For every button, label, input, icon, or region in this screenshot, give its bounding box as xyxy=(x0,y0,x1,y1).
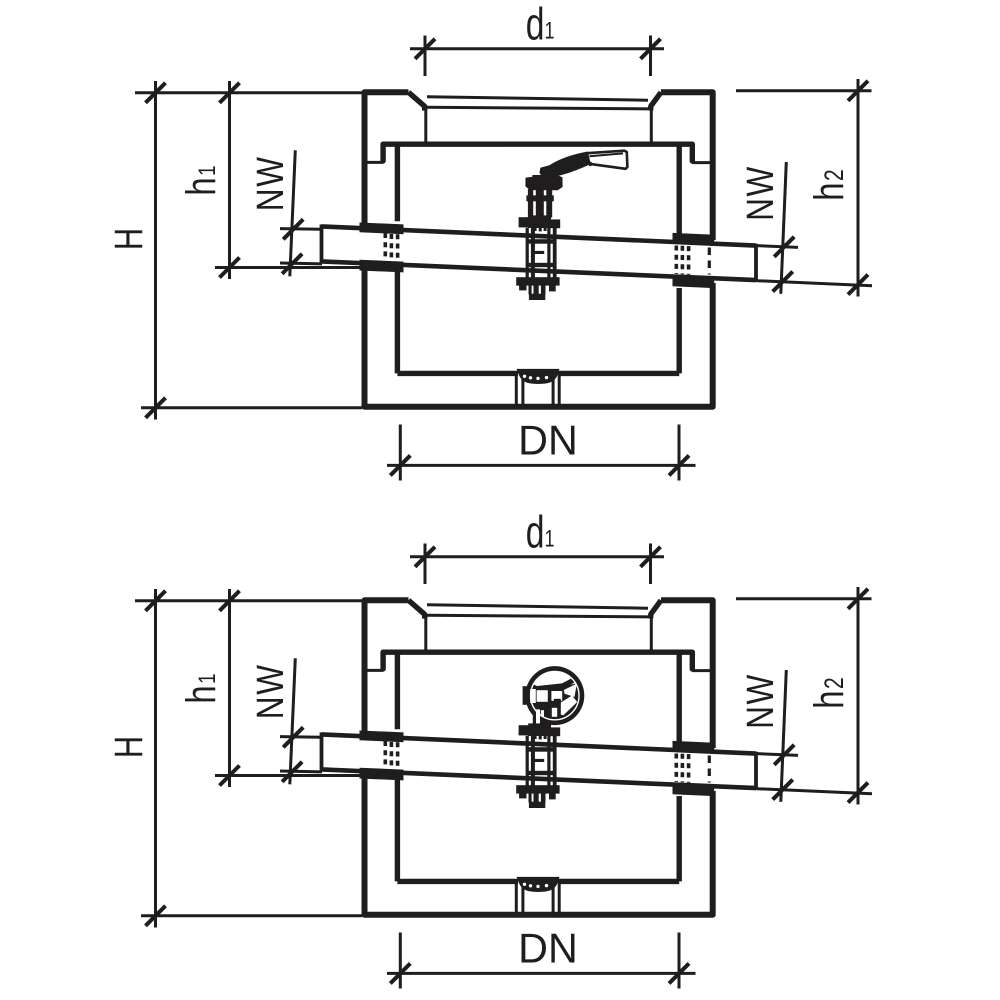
H bottom extension line 2 xyxy=(141,914,362,917)
valve 1 upper flange xyxy=(528,215,551,228)
pipe 2 left seal dashes xyxy=(383,741,387,768)
valve 1 lower stem xyxy=(529,285,532,294)
DN right tick 1 xyxy=(669,455,689,475)
d1 right tick 1 xyxy=(641,39,661,59)
h1 bottom extension line 1 xyxy=(215,266,361,269)
pipe 2 outer-wall dashed joint xyxy=(708,756,711,783)
h1 bottom tick 1 xyxy=(220,258,240,278)
pipe 1 right wall seal bottom bar xyxy=(673,275,715,288)
dimension h2 line 1 xyxy=(857,79,860,297)
d1 left tick 1 xyxy=(415,39,435,59)
dimension NW-left line 2 xyxy=(290,658,296,784)
chamber 1 cover seat xyxy=(426,107,650,109)
pipe 2 left wall seal top bar xyxy=(360,731,404,743)
pipe 1 left seal dashes xyxy=(383,233,387,260)
chamber 2 neck right wall xyxy=(650,617,653,653)
chamber 2 cover seat xyxy=(426,615,650,617)
NW-right top tick 2 xyxy=(774,745,794,765)
dimension NW-left line 1 xyxy=(290,150,296,276)
pipe 1 outer-wall dashed joint xyxy=(708,248,711,275)
dimension h1 line 2 xyxy=(228,589,231,787)
valve 2 handwheel top opening xyxy=(533,671,575,686)
chamber 1 outer wall outline xyxy=(365,92,409,228)
valve 2 stem xyxy=(533,704,548,726)
pipe 2 top edge xyxy=(322,734,757,753)
NW-right top extension line 1 xyxy=(757,246,798,248)
chamber 2 inner ceiling xyxy=(383,650,691,655)
NW-right top tick 1 xyxy=(774,237,794,257)
h2 bottom tick 1 xyxy=(848,275,868,295)
valve 2 body rungs xyxy=(528,747,557,752)
chamber 2 left rebate xyxy=(380,652,385,669)
chamber 1 neck right wall xyxy=(650,109,653,145)
pipe 1 right seal dashes xyxy=(674,246,678,275)
valve 2 right bolt columns xyxy=(547,736,550,789)
dimension h1 line 1 xyxy=(228,81,231,279)
NW-left extension lines 1 xyxy=(280,229,322,264)
chamber 2 cover plate top xyxy=(427,605,648,608)
h1 bottom extension line 2 xyxy=(215,774,361,777)
pipe 2 right end xyxy=(754,752,758,790)
dimension NW-right line 1 xyxy=(781,162,787,294)
pipe 2 left end xyxy=(320,733,324,772)
NW-left top tick 1 xyxy=(283,219,303,239)
pipe 2 right wall seal bottom bar xyxy=(673,783,715,796)
H top tick 1 xyxy=(146,83,166,103)
dimension DN line 1 xyxy=(387,464,696,467)
chamber 2 drain sump dish xyxy=(517,877,560,892)
H bottom tick 1 xyxy=(146,398,166,418)
valve 2 handwheel highlight ring xyxy=(531,671,579,719)
dimension H line 1 xyxy=(154,81,157,420)
NW-right bottom tick 2 xyxy=(773,780,793,800)
pipe 2 right wall seal top bar xyxy=(673,741,715,754)
pipe 1 right end xyxy=(754,244,758,282)
pipe 1 right wall seal top bar xyxy=(673,233,715,246)
valve 1 lever grip xyxy=(587,151,627,169)
dimension H line 2 xyxy=(154,589,157,928)
h2 top tick 1 xyxy=(848,81,868,101)
NW-left extension lines 2 xyxy=(280,737,322,772)
pipe bottom extension line right 2 xyxy=(757,789,872,794)
pipe 2 bottom edge xyxy=(322,769,757,788)
valve 1 left bolt columns xyxy=(526,228,529,281)
dimension h2 line 2 xyxy=(857,587,860,805)
pipe 1 bottom edge xyxy=(322,261,757,280)
h1 top tick 2 xyxy=(220,591,240,611)
svg-text:NW: NW xyxy=(249,663,291,719)
chamber 1 drain sump dish xyxy=(517,369,560,384)
valve 2 lower flange xyxy=(516,785,559,793)
NW-right bottom tick 1 xyxy=(773,272,793,292)
valve 2 handwheel hub slots xyxy=(530,689,536,703)
chamber 2 floor xyxy=(397,879,679,884)
dimension d1 line 2 xyxy=(410,555,664,558)
DN extension lines 1 xyxy=(400,425,679,481)
d1 left tick 2 xyxy=(415,547,435,567)
pipe bottom extension line right 1 xyxy=(757,281,872,286)
chamber 2 inner right wall xyxy=(677,652,682,881)
DN left tick 1 xyxy=(390,455,410,475)
valve 2 handwheel bottom gap xyxy=(552,708,557,717)
H bottom tick 2 xyxy=(146,906,166,926)
chamber 1 inner right wall xyxy=(677,144,682,373)
DN right tick 2 xyxy=(669,963,689,983)
chamber 1 rim left chamfer xyxy=(409,92,425,110)
svg-text:H: H xyxy=(106,736,151,758)
dimension DN line 2 xyxy=(387,972,696,975)
d1 right tick 2 xyxy=(641,547,661,567)
pipe 1 left wall seal top bar xyxy=(360,223,404,235)
h2 bottom tick 2 xyxy=(848,783,868,803)
DN left tick 2 xyxy=(390,963,410,983)
valve 2 left bolt columns xyxy=(526,736,529,789)
h2 top extension line 2 xyxy=(736,597,872,600)
valve 1 lower flange xyxy=(516,277,559,285)
svg-text:DN: DN xyxy=(518,926,578,972)
chamber 2 rim right chamfer xyxy=(651,600,661,618)
svg-text:H: H xyxy=(106,228,151,250)
chamber 1 neck left wall xyxy=(424,109,427,145)
pipe 1 left wall seal bottom bar xyxy=(360,260,404,273)
chamber 1 left rebate xyxy=(380,144,385,161)
valve 2 upper flange xyxy=(528,723,551,736)
valve 1 foot xyxy=(529,294,545,300)
valve 2 handwheel right spoke gap xyxy=(564,684,577,697)
chamber 2 inner left wall xyxy=(395,652,400,881)
h1 top tick 1 xyxy=(220,83,240,103)
chamber 1 floor xyxy=(397,371,679,376)
h2 top tick 2 xyxy=(848,589,868,609)
valve 2 handwheel hub top band xyxy=(538,676,578,690)
pipe 1 left end xyxy=(320,225,324,264)
valve 1 lever arm xyxy=(540,152,590,177)
d1 extension lines 1 xyxy=(425,36,651,77)
chamber 1 rim right chamfer xyxy=(651,92,661,110)
chamber 1 inner left wall xyxy=(395,144,400,373)
pipe 2 left wall seal bottom bar xyxy=(360,768,404,781)
valve 2 handwheel left hub tab xyxy=(523,686,530,705)
valve 2 handwheel lower right gap xyxy=(561,696,577,716)
chamber 2 rim left chamfer xyxy=(409,600,425,618)
chamber 2 right rebate xyxy=(690,652,695,669)
valve 1 upper stem xyxy=(528,189,533,218)
H/h1 top extension line 1 xyxy=(135,91,362,94)
h1 bottom tick 2 xyxy=(220,766,240,786)
chamber 1 cover plate top xyxy=(427,97,648,100)
H top tick 2 xyxy=(146,591,166,611)
svg-text:NW: NW xyxy=(739,165,781,221)
svg-text:NW: NW xyxy=(249,155,291,211)
pipe 1 top edge xyxy=(322,226,757,245)
chamber 2 drain pipe walls xyxy=(516,880,559,912)
d1 extension lines 2 xyxy=(425,544,651,585)
valve 2 foot xyxy=(529,802,545,808)
valve 2 handwheel rim xyxy=(525,666,584,725)
dimension NW-right line 2 xyxy=(781,670,787,802)
valve 1 lever pin xyxy=(588,162,592,166)
chamber 1 drain pipe walls xyxy=(516,372,559,404)
NW-left top tick 2 xyxy=(283,727,303,747)
valve 2 stem slits xyxy=(536,709,540,723)
H/h1 top extension line 2 xyxy=(135,599,362,602)
pipe 2 right seal dashes xyxy=(674,754,678,783)
valve 2 lower stem xyxy=(529,793,532,802)
NW-left bottom tick 2 xyxy=(282,762,302,782)
NW-right top extension line 2 xyxy=(757,754,798,756)
NW-left bottom tick 1 xyxy=(282,254,302,274)
chamber 1 inner ceiling xyxy=(383,141,691,146)
h2 top extension line 1 xyxy=(736,89,872,92)
valve 1 bonnet xyxy=(526,176,562,190)
svg-text:NW: NW xyxy=(739,673,781,729)
svg-text:DN: DN xyxy=(518,418,578,464)
valve 1 body rungs xyxy=(528,239,557,244)
H bottom extension line 1 xyxy=(141,406,362,409)
chamber 1 right rebate xyxy=(690,144,695,161)
DN extension lines 2 xyxy=(400,933,679,989)
chamber 2 neck left wall xyxy=(424,617,427,653)
dimension d1 line 1 xyxy=(410,47,664,50)
valve 1 right bolt columns xyxy=(547,228,550,281)
chamber 2 outer wall outline xyxy=(365,600,409,736)
